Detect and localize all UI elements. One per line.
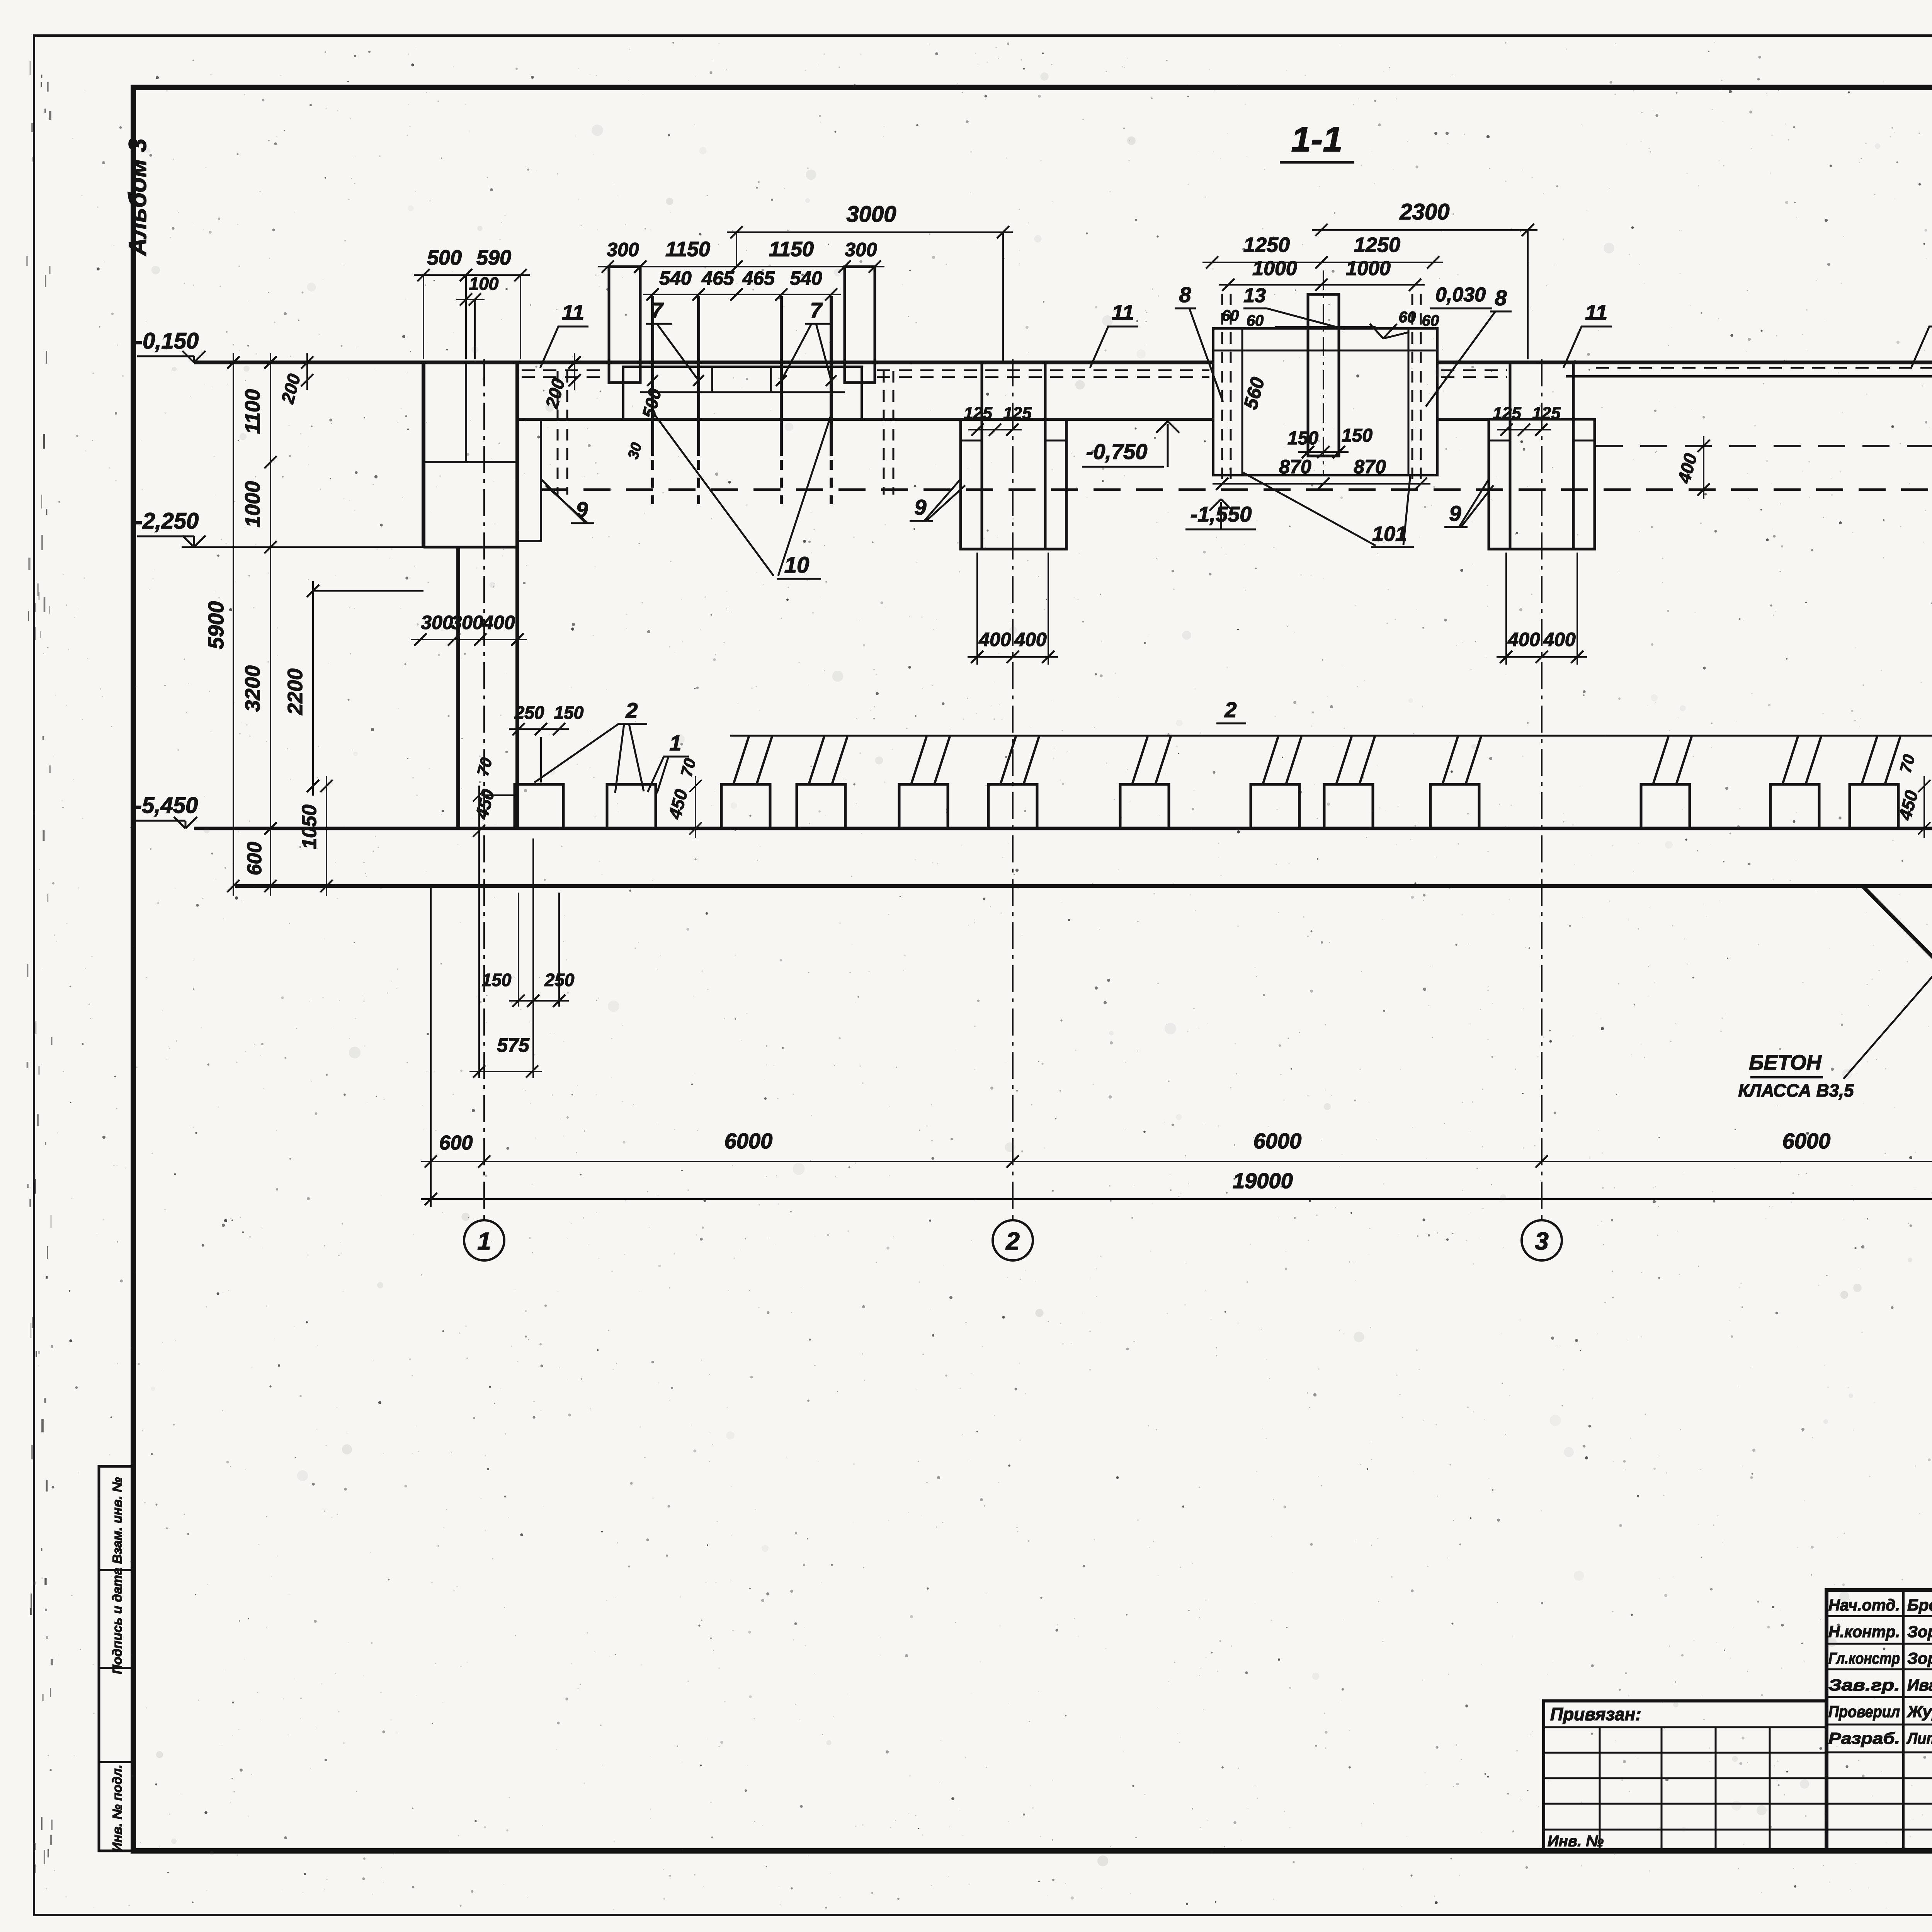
svg-text:6000: 6000 xyxy=(1782,1129,1831,1153)
svg-text:0,030: 0,030 xyxy=(1435,284,1486,306)
svg-text:Зав.гр.: Зав.гр. xyxy=(1828,1676,1900,1694)
svg-text:101: 101 xyxy=(1372,522,1407,546)
svg-text:Разраб.: Разраб. xyxy=(1828,1729,1900,1747)
svg-text:7: 7 xyxy=(810,298,823,322)
svg-text:125: 125 xyxy=(1003,404,1032,423)
svg-text:100: 100 xyxy=(469,274,499,294)
svg-text:1150: 1150 xyxy=(665,238,710,261)
svg-text:2: 2 xyxy=(625,698,638,723)
svg-text:Инв. №: Инв. № xyxy=(1548,1833,1604,1850)
svg-text:60: 60 xyxy=(1247,312,1264,329)
svg-text:10: 10 xyxy=(784,553,810,578)
svg-text:250: 250 xyxy=(544,970,575,990)
svg-text:Взам. инв. №: Взам. инв. № xyxy=(110,1477,125,1564)
svg-text:540: 540 xyxy=(659,267,692,289)
svg-text:590: 590 xyxy=(476,246,511,269)
svg-text:6000: 6000 xyxy=(1253,1129,1302,1153)
svg-text:1000: 1000 xyxy=(1252,257,1297,280)
svg-text:400: 400 xyxy=(1543,629,1576,650)
svg-text:3: 3 xyxy=(1535,1227,1549,1255)
svg-text:465: 465 xyxy=(742,267,775,289)
svg-text:60: 60 xyxy=(1222,307,1239,324)
svg-text:2: 2 xyxy=(1005,1227,1020,1255)
svg-text:9: 9 xyxy=(914,495,926,519)
svg-text:-0,750: -0,750 xyxy=(1086,439,1148,464)
svg-text:60: 60 xyxy=(1422,312,1439,329)
svg-text:400: 400 xyxy=(978,629,1011,650)
svg-text:870: 870 xyxy=(1279,456,1311,478)
svg-text:3000: 3000 xyxy=(846,202,896,227)
svg-text:-5,450: -5,450 xyxy=(134,793,198,818)
svg-text:300: 300 xyxy=(451,612,483,633)
svg-text:9: 9 xyxy=(1449,501,1461,526)
svg-text:500: 500 xyxy=(427,246,462,269)
svg-text:Зорин: Зорин xyxy=(1907,1622,1932,1641)
svg-text:60: 60 xyxy=(1399,309,1416,326)
svg-text:КЛАССА В3,5: КЛАССА В3,5 xyxy=(1738,1080,1854,1100)
svg-text:Привязан:: Привязан: xyxy=(1550,1704,1641,1724)
svg-text:6000: 6000 xyxy=(724,1129,773,1153)
svg-text:600: 600 xyxy=(439,1132,473,1154)
svg-text:2300: 2300 xyxy=(1399,199,1449,224)
svg-text:19000: 19000 xyxy=(1233,1168,1293,1193)
svg-text:3200: 3200 xyxy=(241,665,264,712)
svg-text:1100: 1100 xyxy=(241,389,264,434)
svg-text:300: 300 xyxy=(845,239,877,260)
svg-text:300: 300 xyxy=(421,612,453,633)
svg-text:11: 11 xyxy=(1112,300,1134,325)
svg-text:5900: 5900 xyxy=(204,601,228,650)
svg-text:8: 8 xyxy=(1495,286,1507,310)
svg-text:1000: 1000 xyxy=(1346,257,1391,280)
svg-text:Зорин: Зорин xyxy=(1907,1649,1932,1667)
svg-text:8: 8 xyxy=(1179,282,1191,307)
svg-text:250: 250 xyxy=(514,702,544,723)
svg-text:Альбом 3: Альбом 3 xyxy=(124,138,151,256)
svg-text:465: 465 xyxy=(701,267,735,289)
svg-text:Гл.констр: Гл.констр xyxy=(1828,1649,1900,1667)
svg-text:1250: 1250 xyxy=(1354,233,1400,257)
svg-text:-0,150: -0,150 xyxy=(135,328,199,354)
svg-text:400: 400 xyxy=(1507,629,1540,650)
svg-text:400: 400 xyxy=(1014,629,1047,650)
svg-text:150: 150 xyxy=(1342,425,1372,446)
svg-text:300: 300 xyxy=(607,239,639,260)
svg-text:7: 7 xyxy=(651,298,664,322)
svg-text:1150: 1150 xyxy=(769,238,814,261)
svg-text:2: 2 xyxy=(1224,697,1236,722)
svg-text:Иванова: Иванова xyxy=(1907,1676,1932,1694)
svg-text:870: 870 xyxy=(1354,456,1386,478)
svg-text:Нач.отд.: Нач.отд. xyxy=(1828,1596,1900,1614)
svg-text:125: 125 xyxy=(1532,404,1561,423)
svg-text:1250: 1250 xyxy=(1243,233,1290,257)
svg-text:150: 150 xyxy=(1287,428,1318,449)
svg-text:БЕТОН: БЕТОН xyxy=(1749,1051,1822,1074)
svg-text:-2,250: -2,250 xyxy=(135,509,199,534)
svg-text:11: 11 xyxy=(562,300,584,325)
svg-text:Литвиненко: Литвиненко xyxy=(1906,1729,1932,1747)
svg-text:540: 540 xyxy=(790,267,822,289)
svg-text:125: 125 xyxy=(1493,404,1521,423)
svg-text:Подпись и дата: Подпись и дата xyxy=(110,1568,125,1674)
svg-text:400: 400 xyxy=(482,612,515,633)
svg-text:2200: 2200 xyxy=(284,668,307,715)
svg-text:13: 13 xyxy=(1243,284,1266,307)
svg-text:125: 125 xyxy=(964,404,992,423)
svg-text:150: 150 xyxy=(482,970,512,990)
svg-text:Инв. № подл.: Инв. № подл. xyxy=(110,1765,125,1852)
svg-text:11: 11 xyxy=(1585,300,1607,325)
svg-text:Бродский: Бродский xyxy=(1907,1596,1932,1614)
svg-text:150: 150 xyxy=(554,702,584,723)
svg-text:1: 1 xyxy=(477,1227,491,1255)
svg-text:600: 600 xyxy=(243,842,266,876)
svg-text:1050: 1050 xyxy=(298,804,321,849)
svg-text:Журавлева: Журавлева xyxy=(1906,1702,1932,1721)
svg-text:Проверил: Проверил xyxy=(1828,1702,1900,1721)
svg-text:1-1: 1-1 xyxy=(1291,120,1343,159)
